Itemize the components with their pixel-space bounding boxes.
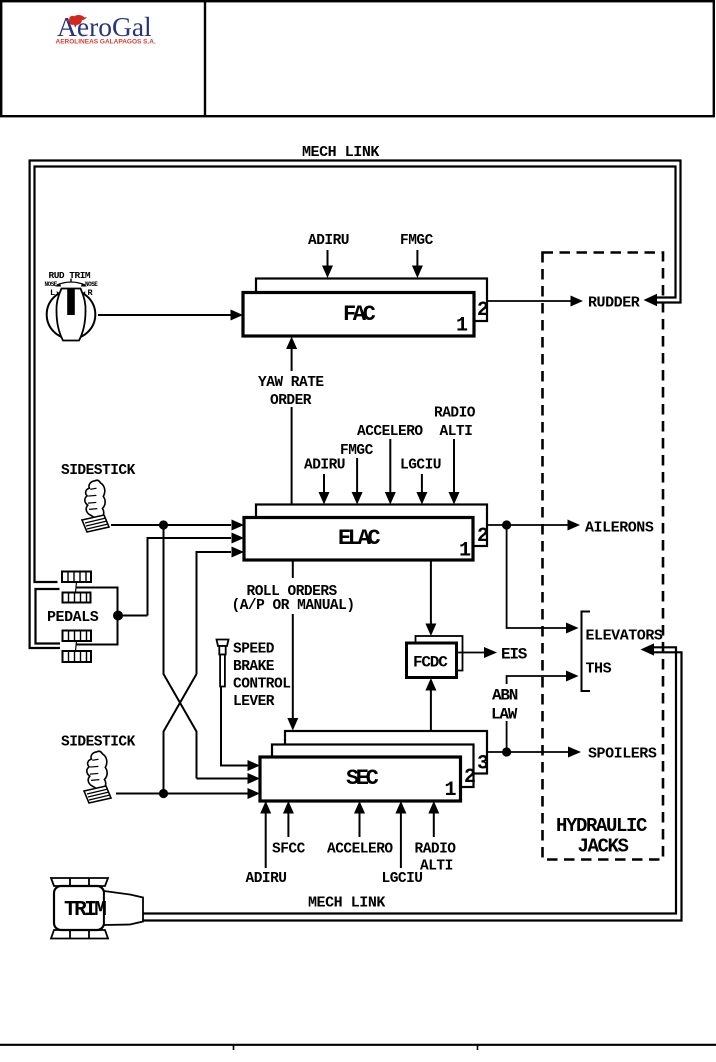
- junction dot pedals: [113, 611, 123, 621]
- computer FCDC back box: [416, 636, 463, 671]
- wire: pedals right bracket: [76, 588, 118, 645]
- wire: mech-link outer frame (pedals to rudder): [30, 161, 681, 649]
- pedal symbol 4: [63, 651, 92, 662]
- svg-text:FMGC: FMGC: [400, 233, 434, 249]
- wire: LGCIU arrow into ELAC2: [416, 474, 427, 505]
- svg-text:ALTI: ALTI: [440, 424, 473, 440]
- pedal symbol 3: [63, 631, 92, 642]
- svg-text:SIDESTICK: SIDESTICK: [61, 463, 136, 479]
- svg-text:EIS: EIS: [501, 646, 528, 664]
- label YAW RATE / ORDER: [255, 371, 331, 409]
- svg-text:ACCELERO: ACCELERO: [327, 842, 393, 858]
- svg-text:FAC: FAC: [343, 302, 376, 327]
- wire: crossover X diagonal B (sidestick2 up to ELAC): [164, 674, 197, 794]
- wire: mech-link trim to THS outer line: [143, 652, 682, 920]
- svg-text:RUD TRIM: RUD TRIM: [49, 270, 91, 281]
- link pedal3-pedal4: [76, 641, 77, 651]
- svg-text:SEC: SEC: [346, 766, 379, 791]
- bracket elevators/THS: [582, 612, 591, 692]
- svg-text:ORDER: ORDER: [270, 393, 312, 409]
- svg-text:HYDRAULIC: HYDRAULIC: [556, 815, 647, 837]
- svg-text:NOSE: NOSE: [85, 281, 98, 288]
- svg-text:YAW RATE: YAW RATE: [258, 375, 324, 391]
- svg-text:FMGC: FMGC: [340, 443, 374, 459]
- svg-text:1: 1: [445, 779, 457, 802]
- wire: SEC to FCDC up arrow: [425, 678, 436, 731]
- wire: roll orders ELAC to SEC down arrow: [287, 560, 298, 731]
- svg-text:ADIRU: ADIRU: [304, 458, 345, 474]
- pedal symbol 2: [63, 593, 91, 603]
- wire: mech-link trim to THS inner line: [143, 647, 676, 913]
- svg-text:ELEVATORS: ELEVATORS: [586, 628, 663, 645]
- label ABN LAW: [489, 684, 524, 724]
- wire: crossover to SEC input2 arrowhead: [197, 773, 261, 784]
- sidestick icon 1: [82, 479, 109, 532]
- svg-text:RADIO: RADIO: [434, 406, 476, 422]
- pedal symbol 1: [62, 572, 91, 583]
- svg-text:MECH LINK: MECH LINK: [302, 144, 379, 161]
- wire: ELAC2 output to AILERONS with arrowhead: [487, 520, 580, 531]
- svg-text:SPOILERS: SPOILERS: [588, 746, 657, 763]
- wire: ELAC to FCDC down arrow: [425, 560, 436, 636]
- svg-text:JACKS: JACKS: [578, 836, 629, 858]
- wire: ADIRU arrow into SEC1 bottom: [260, 801, 271, 868]
- wire: SEC3 to SPOILERS with arrowhead: [487, 747, 581, 758]
- computer FAC box 2: [256, 279, 487, 322]
- svg-text:MECH LINK: MECH LINK: [308, 895, 385, 912]
- svg-text:(A/P OR MANUAL): (A/P OR MANUAL): [232, 598, 355, 614]
- wire: mech-link inner frame (pedals to rudder): [35, 167, 676, 583]
- wire: sidestick1 to ELAC input1 with arrowhead: [111, 520, 244, 531]
- wire: sidestick2 via crossover to ELAC input3: [197, 547, 245, 675]
- svg-text:2: 2: [477, 299, 489, 322]
- svg-text:2: 2: [477, 525, 489, 548]
- svg-text:TRIM: TRIM: [64, 899, 106, 922]
- computer ELAC box 1: [244, 518, 473, 561]
- svg-text:NOSE: NOSE: [45, 281, 58, 288]
- dashed box hydraulic jacks: [543, 253, 664, 860]
- svg-text:SFCC: SFCC: [272, 842, 306, 858]
- wire: SFCC arrow into SEC1 bottom: [283, 801, 294, 837]
- wire: yaw rate order (ELAC to FAC) with up arrowhead: [286, 337, 297, 505]
- computer SEC box 2: [272, 745, 474, 788]
- svg-text:RADIO: RADIO: [415, 842, 457, 858]
- wire: ELAC output branch down to ELEVATORS with arrowhead: [507, 525, 579, 634]
- svg-text:LAW: LAW: [491, 706, 518, 724]
- junction dot sidestick1: [159, 520, 168, 529]
- svg-text:FCDC: FCDC: [413, 654, 448, 672]
- speed brake lever icon: [217, 640, 229, 687]
- link pedal1-pedal2: [76, 582, 77, 593]
- wire: ACCELERO arrow into SEC1 bottom: [354, 801, 365, 837]
- wire: LGCIU arrow into SEC1 bottom: [395, 801, 406, 868]
- svg-text:ADIRU: ADIRU: [246, 871, 287, 887]
- svg-text:PEDALS: PEDALS: [47, 609, 99, 626]
- svg-text:AEROLINEAS GALAPAGOS S.A.: AEROLINEAS GALAPAGOS S.A.: [56, 39, 156, 46]
- computer ELAC box 2: [256, 505, 487, 547]
- junction dot sidestick2: [159, 789, 168, 798]
- wire: pedals dot to riser: [118, 615, 148, 617]
- footer rule: [0, 1044, 716, 1046]
- wire: RADIO ALTI arrow into SEC1 bottom: [428, 801, 439, 837]
- svg-text:1: 1: [459, 540, 471, 563]
- label ROLL ORDERS / (A/P OR MANUAL): [230, 578, 356, 614]
- wire: FMGC arrow into FAC2: [412, 250, 423, 278]
- junction dot ELAC output: [502, 520, 511, 529]
- computer SEC box 1: [260, 757, 461, 801]
- svg-text:ADIRU: ADIRU: [308, 233, 349, 249]
- computer FAC box 1: [243, 293, 474, 337]
- computer SEC box 3: [285, 731, 487, 774]
- svg-text:2: 2: [464, 766, 476, 789]
- header table frame: [1, 1, 714, 116]
- svg-text:THS: THS: [586, 661, 612, 678]
- svg-text:AeroGal: AeroGal: [57, 11, 152, 42]
- label SPEED BRAKE CONTROL LEVER: [233, 642, 290, 711]
- svg-text:3: 3: [477, 753, 489, 776]
- wire: RADIO ALTI arrow into ELAC2: [449, 439, 460, 505]
- wire: FAC2 to RUDDER with arrowhead: [487, 296, 583, 307]
- svg-text:ELAC: ELAC: [338, 526, 380, 551]
- wire: pedals to ELAC input2: [148, 533, 245, 616]
- svg-text:LEVER: LEVER: [233, 694, 275, 710]
- svg-text:LGCIU: LGCIU: [400, 458, 441, 474]
- svg-text:CONTROL: CONTROL: [233, 677, 290, 693]
- wire: abn law line to THS with arrowhead: [507, 671, 579, 753]
- arrowhead into rudder from mech link: [644, 294, 658, 306]
- junction dot abn law / spoilers: [502, 747, 511, 756]
- wire: sidestick2 to SEC input3 with arrowhead: [116, 788, 260, 799]
- wire: speed brake lever to SEC input1 with arrowhead: [221, 687, 260, 772]
- wire: pedals left bracket: [36, 589, 61, 644]
- computer FCDC front box: [407, 643, 457, 678]
- sidestick icon 2: [84, 750, 111, 803]
- svg-text:1: 1: [456, 315, 468, 338]
- svg-text:ALTI: ALTI: [420, 859, 453, 875]
- svg-text:LGCIU: LGCIU: [382, 871, 423, 887]
- knob RUD TRIM: [45, 270, 99, 341]
- wire: FCDC to EIS with arrowhead: [457, 647, 498, 658]
- wire: ADIRU arrow into ELAC2: [319, 474, 330, 505]
- arrowhead into elevators bracket from mech link: [641, 643, 655, 655]
- wire: ADIRU arrow into FAC2: [322, 250, 333, 278]
- svg-text:SPEED: SPEED: [233, 642, 275, 658]
- svg-text:SIDESTICK: SIDESTICK: [61, 735, 136, 751]
- svg-text:ACCELERO: ACCELERO: [357, 424, 423, 440]
- svg-text:RUDDER: RUDDER: [588, 295, 640, 312]
- svg-text:AILERONS: AILERONS: [585, 520, 654, 537]
- wire: ACCELERO arrow into ELAC2: [385, 439, 396, 505]
- logo iguana: [66, 15, 88, 28]
- wire: crossover X diagonal A (sidestick1 down to SEC): [164, 525, 197, 779]
- svg-text:BRAKE: BRAKE: [233, 659, 275, 675]
- svg-text:ABN: ABN: [492, 687, 518, 705]
- wire: FMGC arrow into ELAC2: [352, 458, 363, 505]
- wire: rud trim to FAC with arrowhead: [98, 310, 243, 321]
- trim wheel icon: [51, 878, 143, 939]
